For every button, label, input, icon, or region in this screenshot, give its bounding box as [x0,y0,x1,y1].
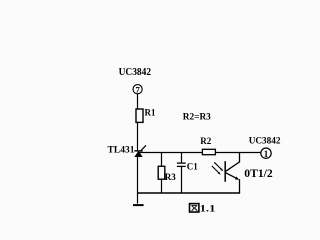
svg-text:7: 7 [135,85,140,95]
svg-text:0T1/2: 0T1/2 [244,166,272,180]
wire: pin 7 to R1 [137,94,139,109]
svg-text:R2=R3: R2=R3 [183,113,211,123]
resistor R1 [136,109,143,122]
wire: top rail, R2 to pin 1 [215,152,260,154]
resistor R3 [158,166,165,179]
ground [133,204,144,206]
wire: C1 top stub [181,153,183,164]
capacitor C1 [177,163,186,166]
svg-text:R1: R1 [145,108,156,118]
emitter wire down [239,179,241,193]
wire: top rail, TL431 to R2 [138,152,203,154]
svg-text:C1: C1 [187,162,198,172]
resistor R2 [202,149,215,154]
wire: C1 bottom stub [181,166,183,193]
svg-text:UC3842: UC3842 [119,67,152,78]
svg-text:1.1: 1.1 [200,205,216,215]
wire: TL431 anode down to ground node [137,157,139,204]
TL431 shunt regulator [134,145,146,157]
optocoupler phototransistor OT1/2 [212,153,240,193]
svg-text:R2: R2 [200,136,211,146]
light arrow 2 [212,166,219,173]
wire: R1 to TL431 cathode [137,122,139,150]
label figure caption 图1.1 [190,204,216,215]
wire: bottom rail [138,192,241,194]
svg-text:1: 1 [264,149,269,159]
collector wire [226,153,240,172]
pin 7 terminal [133,85,142,95]
svg-text:R3: R3 [165,172,176,182]
svg-text:UC3842: UC3842 [249,136,281,146]
pin 1 terminal [261,148,271,159]
svg-text:TL431: TL431 [108,145,136,155]
base bar [224,161,226,182]
wire: R3 top stub [161,153,163,167]
emitter with arrow [226,173,237,179]
glyph 图 drawn as strokes [190,204,199,212]
light arrow 1 [214,162,221,169]
wire: R3 bottom stub [161,179,163,193]
